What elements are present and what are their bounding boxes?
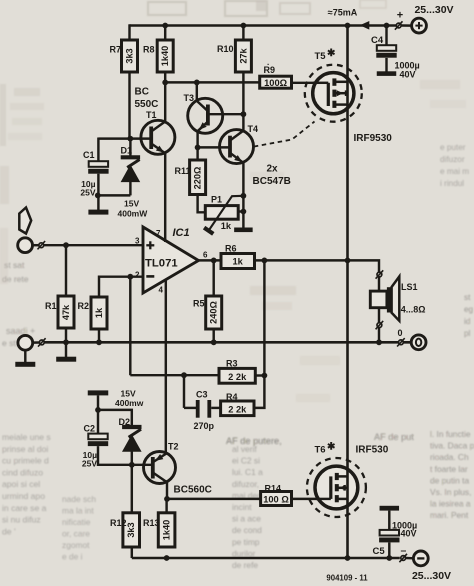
resistor R5 xyxy=(206,296,222,329)
svg-text:6: 6 xyxy=(203,251,208,260)
svg-text:R4: R4 xyxy=(226,392,238,402)
T2 emitter line xyxy=(154,454,166,462)
wire D2 anode down xyxy=(131,451,133,465)
T5 body stub xyxy=(334,92,347,95)
wire T1 collector to node xyxy=(164,82,166,122)
T6 gate wire inside xyxy=(316,498,331,500)
svg-text:AF de put: AF de put xyxy=(374,432,414,442)
wire R4 right up xyxy=(254,376,264,408)
svg-text:BC560C: BC560C xyxy=(174,484,212,495)
P1 wiper end bar xyxy=(204,228,213,234)
wire R9 to T5 gate xyxy=(292,82,329,84)
svg-text:1k: 1k xyxy=(94,307,104,318)
wire R13 top xyxy=(165,499,167,513)
op-amp IC1 triangle xyxy=(143,227,199,293)
junction R5 top xyxy=(211,258,217,264)
svg-text:R13: R13 xyxy=(143,518,160,528)
wire R11 to P1 xyxy=(198,195,206,213)
wire to + terminal xyxy=(402,24,413,27)
wire +rail to R10 xyxy=(242,24,244,40)
wire feedback to output node xyxy=(263,260,265,375)
svg-text:T5: T5 xyxy=(315,51,327,62)
wire R2 bottom xyxy=(98,329,100,342)
T4 collector line xyxy=(230,131,243,141)
T3 emitter arrow xyxy=(199,122,207,130)
terminal 0 output xyxy=(411,335,426,350)
junction on +rail at C4 xyxy=(384,23,390,29)
wire positive supply rail xyxy=(130,24,397,27)
T6 gate bar xyxy=(329,476,332,499)
svg-text:400mW: 400mW xyxy=(118,209,149,219)
T6 channel segment bottom xyxy=(335,495,339,502)
junction R6 right node xyxy=(262,258,268,264)
svg-text:≈75mA: ≈75mA xyxy=(328,7,358,17)
svg-text:T3: T3 xyxy=(184,93,195,103)
svg-text:47k: 47k xyxy=(61,304,71,320)
svg-text:Vs. In plus,: Vs. In plus, xyxy=(430,487,471,497)
T5 body tick xyxy=(345,90,347,96)
svg-text:de cond: de cond xyxy=(232,525,262,535)
ground bar above C5 xyxy=(380,506,400,511)
junction T1 base node xyxy=(127,136,133,142)
svg-text:T1: T1 xyxy=(146,110,157,120)
junction P1 right node xyxy=(241,209,247,215)
terminal - 25-30V xyxy=(413,551,428,566)
T1 emitter arrow xyxy=(156,146,164,153)
resistor R4 xyxy=(221,401,254,416)
svg-text:2x: 2x xyxy=(267,164,279,175)
ground bar above C2/D2 xyxy=(88,390,109,395)
svg-text:100Ω: 100Ω xyxy=(264,78,288,88)
svg-text:ei C2 si: ei C2 si xyxy=(232,456,260,466)
T2 base bar xyxy=(151,457,155,479)
speaker LS1 horn xyxy=(392,277,400,321)
svg-text:R6: R6 xyxy=(225,244,237,254)
svg-text:e st.: e st. xyxy=(2,338,18,348)
dashed thermal coupling T4-T5 xyxy=(254,122,315,147)
resistor R10 xyxy=(235,40,251,72)
wire C4 bottom xyxy=(385,58,387,72)
wire ground bar to node xyxy=(97,395,99,410)
T5 source stub xyxy=(334,103,347,106)
svg-text:1k: 1k xyxy=(233,257,244,267)
wire R10 to T3/T4 collector node xyxy=(242,72,244,115)
svg-text:si a ace: si a ace xyxy=(232,514,261,524)
connector speaker top xyxy=(377,272,382,277)
wire C5 bottom xyxy=(388,543,390,559)
current direction arrow 75mA xyxy=(360,21,370,30)
T5 channel segment bottom xyxy=(332,101,336,108)
svg-text:urmind apo: urmind apo xyxy=(2,491,45,501)
junction IC1 pin2 feedback node xyxy=(127,274,133,280)
wire R3 right xyxy=(255,374,264,376)
transistor T2 circle xyxy=(144,452,176,484)
transistor T4 circle xyxy=(220,130,254,164)
wire C4 top xyxy=(385,26,387,46)
mosfet T5 dashed circle xyxy=(305,65,362,122)
svg-text:st: st xyxy=(464,293,471,302)
T3 base bar xyxy=(206,105,210,126)
svg-text:R11: R11 xyxy=(175,166,191,176)
svg-text:C5: C5 xyxy=(373,546,386,557)
T1 collector line xyxy=(151,122,165,132)
wire R5 top stub xyxy=(212,260,214,296)
svg-text:difuzor,: difuzor, xyxy=(232,479,259,489)
wire R14 to T6 gate xyxy=(292,498,331,500)
IC1 minus sign xyxy=(146,275,154,278)
svg-text:3k3: 3k3 xyxy=(125,48,135,63)
svg-text:25V: 25V xyxy=(82,459,97,469)
wire input bottom terminal-connector xyxy=(32,341,39,344)
svg-text:la iesirea a: la iesirea a xyxy=(430,499,471,509)
capacitor C3 plate2 xyxy=(207,400,211,418)
wire R6 to output node xyxy=(255,259,348,261)
junction on +rail at R8 xyxy=(162,23,168,29)
junction speaker ground xyxy=(376,339,382,345)
wire T2 collector down xyxy=(166,482,168,499)
T5 body arrow xyxy=(337,90,344,96)
T6 body arrow xyxy=(339,485,346,491)
svg-text:apoi si cel: apoi si cel xyxy=(2,479,40,489)
wire T2 base xyxy=(132,464,153,466)
svg-text:or, care: or, care xyxy=(62,529,90,539)
wire D1 to C1 ground node xyxy=(98,194,131,196)
T3 base diagonal xyxy=(197,101,207,110)
svg-text:T6: T6 xyxy=(315,445,326,456)
wire T3 emitter down to R11 xyxy=(196,131,198,162)
resistor R2 xyxy=(91,297,107,329)
T3 collector line xyxy=(208,113,244,115)
wire C3 to R4 xyxy=(211,407,220,409)
wire T1 base node to D1 xyxy=(129,139,131,157)
terminal input bottom xyxy=(18,335,33,350)
svg-text:LS1: LS1 xyxy=(401,282,418,292)
T6 channel segment top xyxy=(335,473,339,480)
svg-text:R3: R3 xyxy=(226,359,238,369)
junction R13 bottom xyxy=(164,555,170,561)
P1 wiper diagonal xyxy=(209,196,244,231)
svg-text:l. In functie: l. In functie xyxy=(430,429,471,439)
svg-text:si nu difuz: si nu difuz xyxy=(2,515,41,525)
junction T2 base node xyxy=(129,462,135,468)
T4 base bar xyxy=(228,136,232,158)
svg-text:T4: T4 xyxy=(248,124,259,134)
ground bar under C4 xyxy=(377,71,397,76)
capacitor C3 plate1 xyxy=(196,400,200,418)
wire R8 node to R9 xyxy=(165,81,260,83)
svg-text:D1: D1 xyxy=(121,146,133,156)
junction T2 collector node xyxy=(164,496,170,502)
svg-text:IC1: IC1 xyxy=(173,227,190,239)
wire T4 emitter down xyxy=(242,162,244,229)
svg-text:in care se a: in care se a xyxy=(2,503,47,513)
svg-text:25...30V: 25...30V xyxy=(414,4,453,16)
wire R1 top xyxy=(65,245,67,296)
svg-text:P1: P1 xyxy=(211,195,222,205)
junction R1 top xyxy=(63,242,69,248)
wire ground rail xyxy=(44,341,412,344)
resistor R8 xyxy=(157,40,173,72)
resistor R6 xyxy=(221,254,255,269)
wire T4 base xyxy=(198,146,230,148)
svg-text:e puter: e puter xyxy=(440,143,466,152)
wire D1 anode down xyxy=(129,182,131,196)
connector speaker bottom xyxy=(377,323,382,328)
svg-text:eg: eg xyxy=(464,305,474,314)
wire R1 bottom xyxy=(65,328,67,342)
junction D2/C2 node xyxy=(95,407,101,413)
T2 collector line xyxy=(153,473,167,483)
wire feedback horizontal to R3 xyxy=(130,374,219,376)
svg-text:cu primele d: cu primele d xyxy=(2,456,49,466)
resistor R13 xyxy=(158,513,175,547)
svg-text:saadi +: saadi + xyxy=(6,326,35,336)
zener diode D2 xyxy=(122,425,141,429)
svg-text:C3: C3 xyxy=(196,390,208,400)
wire C1 bottom xyxy=(97,174,99,211)
wire T4 collector up xyxy=(242,114,244,131)
svg-text:lui. C1 a: lui. C1 a xyxy=(232,467,263,477)
svg-text:difuzor: difuzor xyxy=(440,155,465,164)
T6 body tick xyxy=(343,485,345,491)
wire R5 bottom xyxy=(212,329,214,342)
wire IC1 pin6 output xyxy=(199,259,222,261)
svg-text:C2: C2 xyxy=(84,424,96,434)
svg-text:prinse al doi: prinse al doi xyxy=(2,444,48,454)
terminal + 25-30V xyxy=(412,18,427,33)
connector + supply xyxy=(396,23,401,28)
T5 gate bar xyxy=(327,83,330,106)
wire node to D2 xyxy=(98,410,132,426)
potentiometer P1 box xyxy=(205,206,238,220)
junction R2 ground xyxy=(96,339,102,345)
svg-text:100 Ω: 100 Ω xyxy=(263,495,289,505)
T5 drain stub xyxy=(334,81,347,84)
svg-text:pe timp: pe timp xyxy=(232,537,260,547)
svg-text:40V: 40V xyxy=(401,529,417,539)
resistor R14 xyxy=(261,492,292,506)
svg-text:TL071: TL071 xyxy=(145,258,178,270)
svg-text:IRF9530: IRF9530 xyxy=(354,133,393,144)
svg-text:·: · xyxy=(267,60,270,69)
junction T3 base tap xyxy=(194,80,200,86)
T6 drain stub xyxy=(337,475,348,478)
svg-text:id: id xyxy=(464,317,471,326)
svg-text:incint: incint xyxy=(232,502,252,512)
svg-text:e de i: e de i xyxy=(62,552,83,562)
wire C2 top xyxy=(97,410,99,434)
speaker LS1 bar xyxy=(387,287,392,312)
T4 emitter arrow xyxy=(234,155,242,162)
svg-text:IRF530: IRF530 xyxy=(356,445,389,456)
zener diode D1 xyxy=(121,155,140,159)
junction R5 ground xyxy=(211,339,217,345)
T6 channel segment mid xyxy=(335,484,339,491)
wire IC1 pin7 to T1 emitter xyxy=(164,153,166,242)
svg-text:✱: ✱ xyxy=(327,442,336,453)
resistor R11 xyxy=(190,160,206,195)
T4 emitter line xyxy=(230,153,243,163)
svg-text:15V: 15V xyxy=(124,199,139,209)
resistor R1 xyxy=(58,296,74,328)
svg-text:C1: C1 xyxy=(83,150,95,160)
ground bar under R1 xyxy=(56,357,76,362)
wire R2 top to pin2 xyxy=(99,277,143,297)
junction C1/D1 ground node xyxy=(95,193,101,199)
wire bottom terminal to ground bar xyxy=(24,350,26,363)
svg-text:R10: R10 xyxy=(217,44,234,54)
T1 base bar xyxy=(149,127,153,150)
capacitor C1 xyxy=(89,161,108,167)
svg-text:BC547B: BC547B xyxy=(253,176,291,187)
svg-text:ma la int: ma la int xyxy=(62,506,94,516)
svg-text:1k: 1k xyxy=(221,221,232,231)
svg-text:550C: 550C xyxy=(135,99,159,110)
input flag symbol xyxy=(19,208,31,234)
T3 emitter line xyxy=(198,122,208,131)
IC1 plus sign xyxy=(146,244,154,246)
wire P1 right xyxy=(238,210,243,212)
svg-text:meiale une s: meiale une s xyxy=(2,432,51,442)
svg-text:st sat: st sat xyxy=(4,260,25,270)
svg-text:1k40: 1k40 xyxy=(160,46,170,66)
wire C5 top xyxy=(388,511,390,530)
mosfet T5 circle xyxy=(313,73,354,114)
svg-text:nade sch: nade sch xyxy=(62,494,96,504)
T5 channel segment top xyxy=(332,78,336,85)
resistor R7 xyxy=(122,40,138,72)
wire T2 collector to R14 xyxy=(167,498,261,500)
svg-text:25V: 25V xyxy=(80,188,95,198)
svg-text:R5: R5 xyxy=(193,299,205,309)
wire output to speaker xyxy=(348,260,380,291)
svg-text:de refe: de refe xyxy=(232,560,258,570)
T5 channel segment mid xyxy=(332,90,336,97)
svg-text:AF de putere,: AF de putere, xyxy=(226,436,282,446)
wire to 0 terminal xyxy=(404,341,412,343)
connector output 0 xyxy=(399,340,404,345)
wire T1 base node to C1 xyxy=(98,137,130,139)
wire C2 bottom xyxy=(98,446,132,465)
T1 emitter line xyxy=(151,144,165,154)
junction P1 wiper node xyxy=(241,193,247,199)
svg-text:rioada. Ch: rioada. Ch xyxy=(430,452,469,462)
T2 emitter arrow xyxy=(155,454,163,461)
T5 gate wire inside xyxy=(313,82,328,84)
svg-text:e mai m: e mai m xyxy=(440,167,469,176)
wire negative rail xyxy=(132,557,400,560)
capacitor C2 xyxy=(88,434,107,440)
wire +rail to R7 xyxy=(128,24,130,40)
svg-text:1k40: 1k40 xyxy=(162,520,172,540)
svg-text:R14: R14 xyxy=(265,484,282,494)
svg-text:2 2k: 2 2k xyxy=(228,372,247,382)
T6 source stub xyxy=(337,498,348,501)
svg-text:mari. Pent: mari. Pent xyxy=(430,510,469,520)
junction T4 base tap xyxy=(195,145,201,151)
wire R1 ground bar stub xyxy=(65,342,67,357)
resistor R12 xyxy=(123,513,140,547)
svg-text:R7: R7 xyxy=(109,45,121,55)
svg-text:27k: 27k xyxy=(238,47,248,63)
svg-text:C4: C4 xyxy=(371,35,384,46)
wire +rail to R8 xyxy=(164,24,166,40)
ground bar under P1 xyxy=(234,228,253,233)
svg-text:de ': de ' xyxy=(2,526,16,536)
mosfet T6 circle xyxy=(315,466,358,509)
resistor R3 xyxy=(219,368,255,383)
wire input to IC1 pin3 xyxy=(44,244,143,246)
svg-text:270p: 270p xyxy=(194,421,215,431)
wire C3 branch right xyxy=(184,407,196,409)
wire T3 base from node xyxy=(196,82,198,101)
svg-text:40V: 40V xyxy=(400,70,416,80)
svg-text:nificatie: nificatie xyxy=(62,517,91,527)
ground bar under C1 xyxy=(88,210,108,215)
svg-text:+: + xyxy=(397,10,403,22)
svg-text:2: 2 xyxy=(135,271,140,280)
resistor R9 xyxy=(260,76,292,88)
svg-text:tiva. Daca p: tiva. Daca p xyxy=(430,441,474,451)
wire feedback vertical from pin2 xyxy=(129,277,131,376)
junction R3/R4 node xyxy=(262,373,268,379)
wire R12 top xyxy=(131,465,133,513)
junction output node xyxy=(345,258,351,264)
svg-text:220Ω: 220Ω xyxy=(193,167,203,190)
svg-text:✱: ✱ xyxy=(327,48,336,59)
wire IC1 pin4 down to T2 emitter xyxy=(165,279,167,454)
svg-text:t foarte lar: t foarte lar xyxy=(430,464,468,474)
connector input bottom xyxy=(39,340,44,345)
svg-text:7: 7 xyxy=(156,229,161,238)
svg-text:15V: 15V xyxy=(121,389,136,399)
wire speaker bottom xyxy=(378,308,380,343)
wire T5 drain column xyxy=(346,26,349,261)
svg-text:R8: R8 xyxy=(143,45,155,55)
svg-text:4: 4 xyxy=(159,286,164,295)
junction R1 ground xyxy=(63,339,69,345)
svg-text:4...8Ω: 4...8Ω xyxy=(401,305,426,315)
wire C3 branch down xyxy=(183,375,185,408)
junction R8/T1 collector node xyxy=(162,80,168,86)
svg-text:R2: R2 xyxy=(78,301,90,311)
junction T3/T4 collector node xyxy=(241,111,247,117)
junction on +rail at T5 drain column xyxy=(345,23,351,29)
svg-text:3k3: 3k3 xyxy=(126,522,136,537)
svg-text:de putin ta: de putin ta xyxy=(430,475,469,485)
svg-text:de rete: de rete xyxy=(2,274,29,284)
T1 base wire xyxy=(130,137,151,139)
svg-text:904109 - 11: 904109 - 11 xyxy=(326,574,368,582)
connector input top xyxy=(39,243,44,248)
junction C5 rail xyxy=(386,555,392,561)
wire R7 to T1 base node xyxy=(128,72,130,139)
junction on +rail at R10 xyxy=(241,23,247,29)
svg-text:pl: pl xyxy=(464,329,471,338)
junction C3 branch xyxy=(181,372,187,378)
svg-text:cind difuzo: cind difuzo xyxy=(2,467,43,477)
junction T6 column bottom xyxy=(345,555,351,561)
transistor T3 circle xyxy=(188,98,223,133)
mosfet T6 dashed circle xyxy=(307,458,366,517)
connector - supply xyxy=(401,556,406,561)
svg-text:R1: R1 xyxy=(45,301,57,311)
T6 body stub xyxy=(337,487,348,490)
svg-text:400mw: 400mw xyxy=(115,398,144,408)
terminal input top xyxy=(18,238,33,253)
wire node to C1 top xyxy=(97,138,99,162)
svg-text:25...30V: 25...30V xyxy=(412,570,451,581)
